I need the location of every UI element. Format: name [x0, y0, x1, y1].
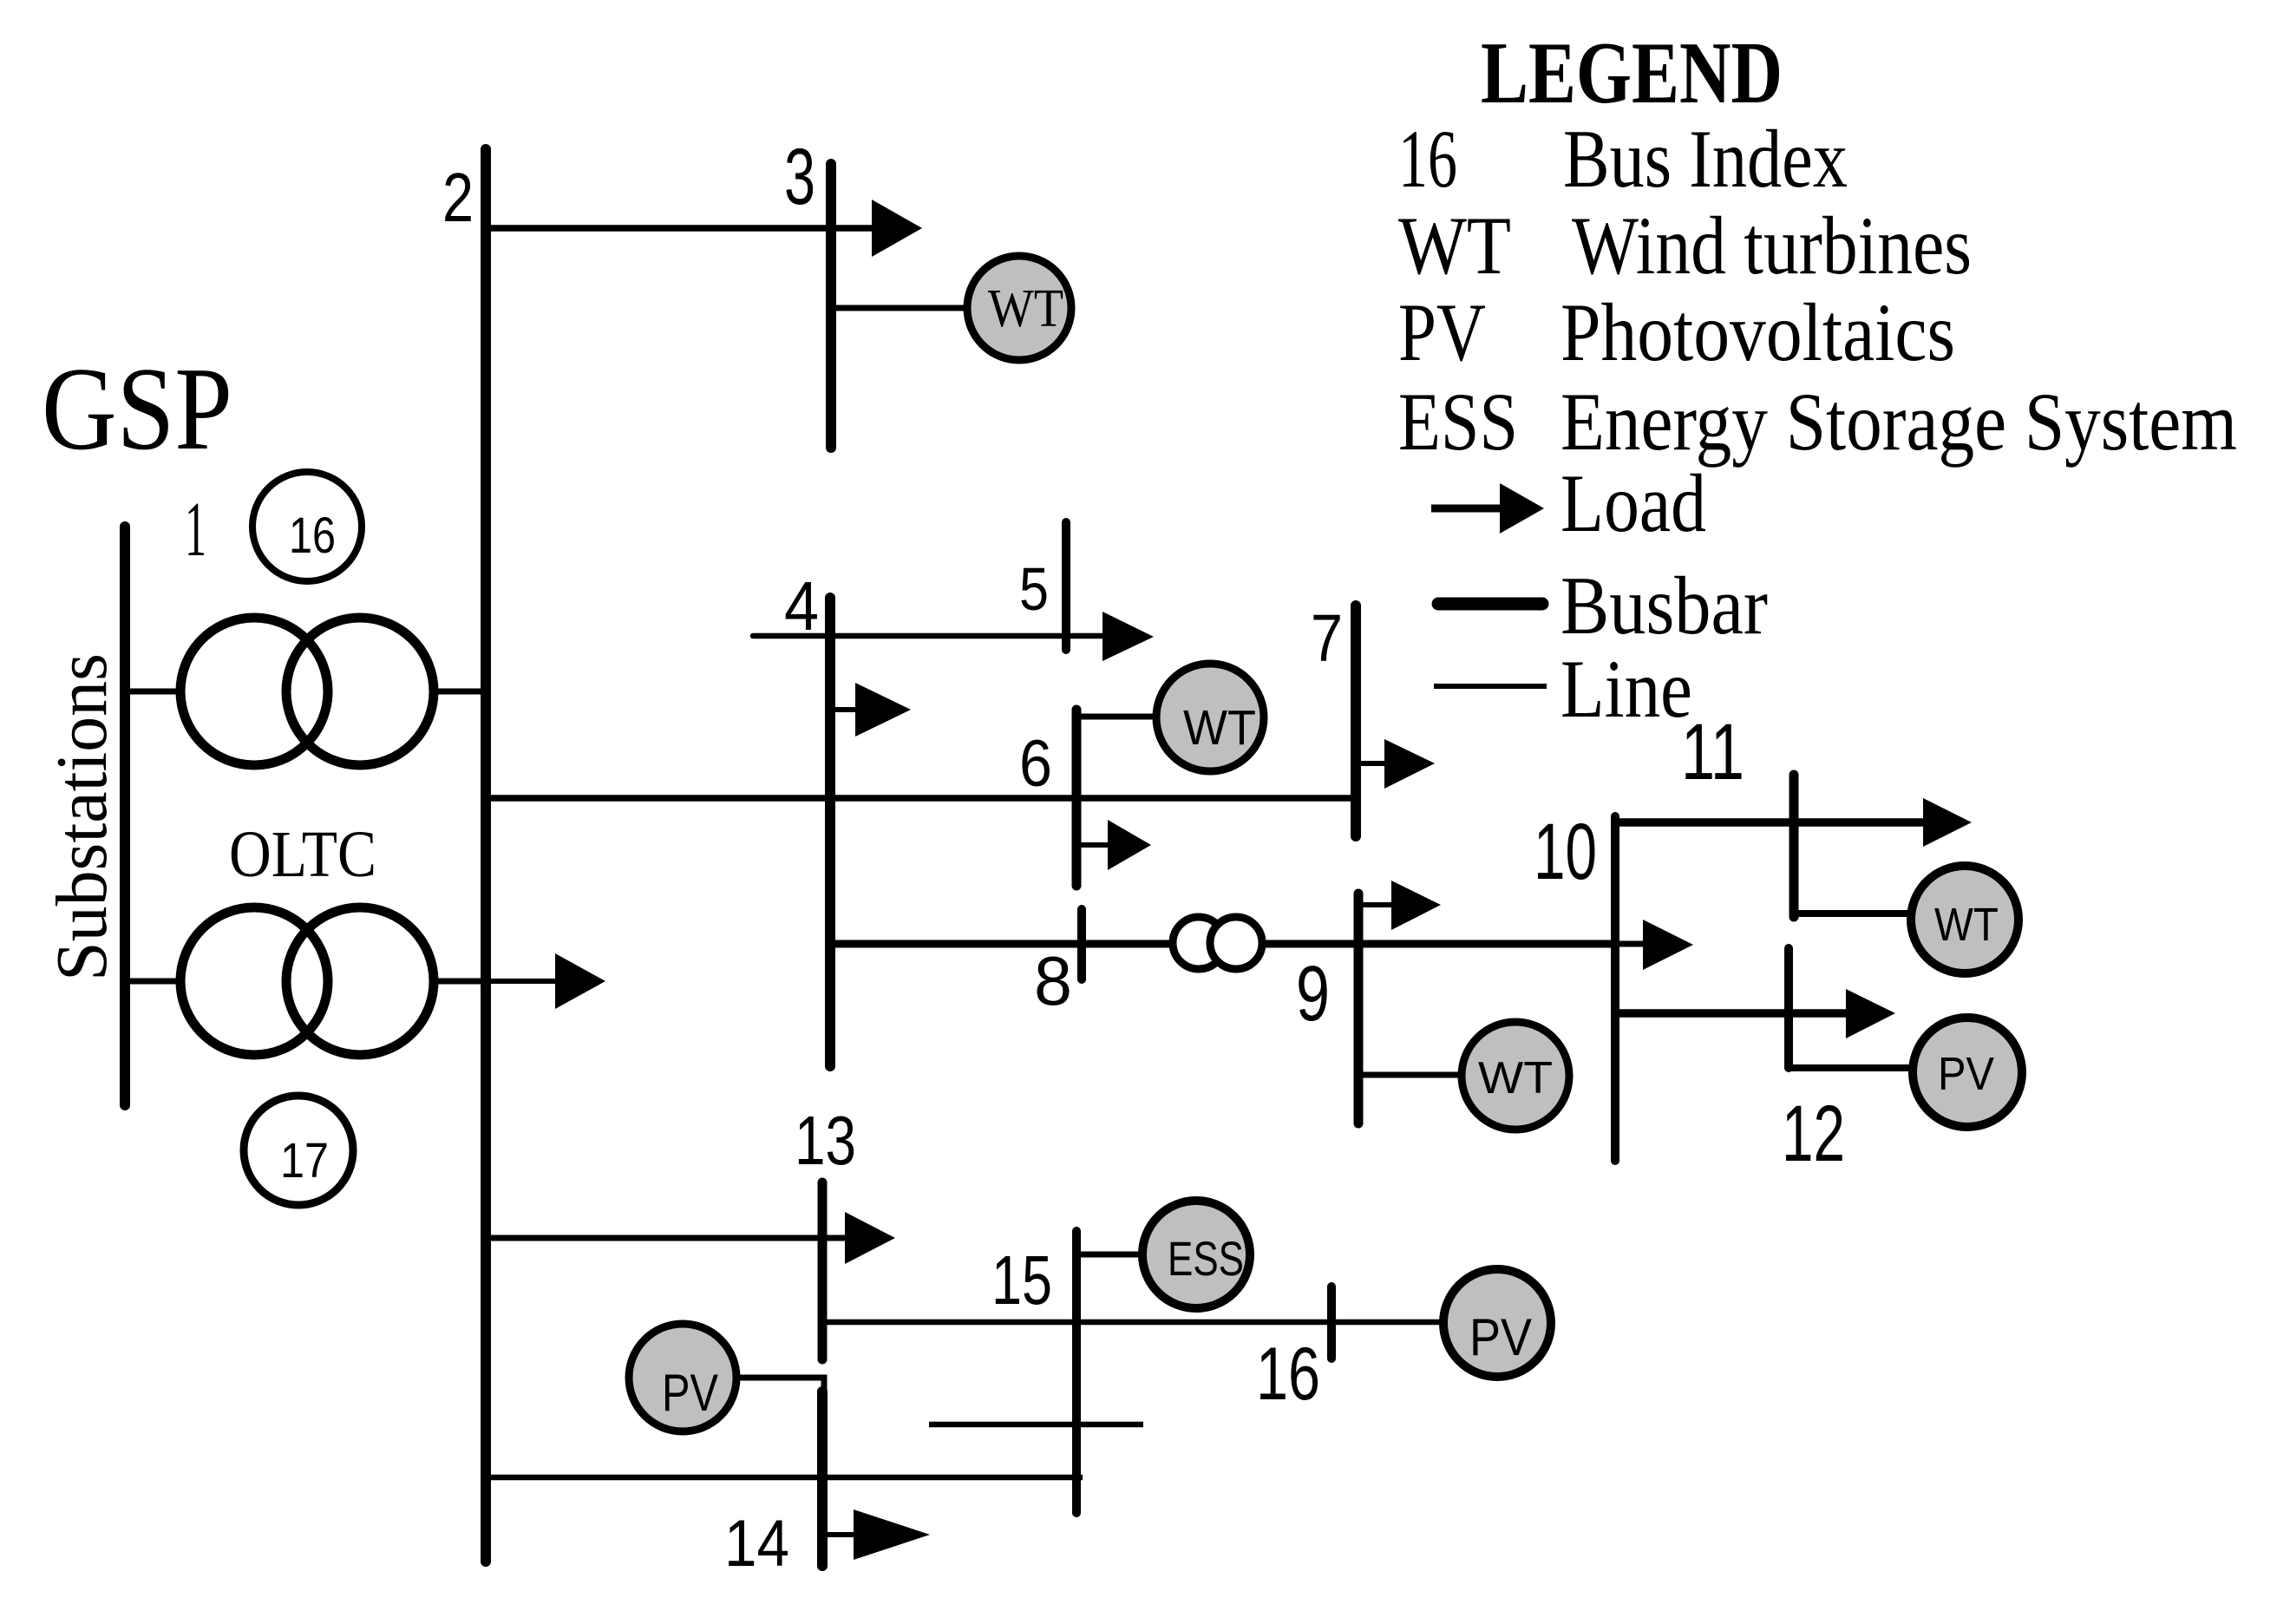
svg-text:OLTC: OLTC [229, 818, 376, 891]
bus 6 busbar [1072, 710, 1082, 886]
svg-text:14: 14 [724, 1507, 789, 1581]
legend busbar sample [1438, 598, 1542, 611]
svg-text:1: 1 [185, 487, 206, 573]
svg-text:13: 13 [795, 1102, 856, 1179]
load arrow bus 2 [486, 979, 557, 984]
svg-text:PV: PV [1469, 1308, 1532, 1366]
load arrow bus 3 [831, 225, 874, 232]
svg-text:ESS: ESS [1168, 1231, 1244, 1286]
svg-text:PV: PV [662, 1364, 718, 1422]
wire line 4-8-9-10 [830, 940, 1615, 948]
bus 5 busbar [1062, 522, 1070, 650]
svg-text:8: 8 [1034, 942, 1072, 1019]
svg-text:16: 16 [289, 507, 336, 564]
svg-text:6: 6 [1019, 727, 1052, 801]
wire transformer T1 to bus2 [432, 689, 486, 695]
wire bus12 to PV [1789, 1064, 1915, 1071]
svg-text:16: 16 [1256, 1333, 1320, 1416]
load arrow bus 14 [822, 1532, 857, 1537]
svg-text:Wind turbines: Wind turbines [1572, 200, 1972, 291]
wire bus1 to transformer T1 [128, 689, 182, 695]
legend load arrow sample [1431, 505, 1502, 513]
svg-text:WT: WT [1934, 899, 1999, 951]
svg-text:17: 17 [280, 1133, 329, 1189]
svg-text:5: 5 [1019, 555, 1049, 623]
wire line 2-7 [486, 795, 1356, 802]
energy storage ESS bus15 [1142, 1201, 1250, 1308]
load arrow bus 13 [845, 1212, 895, 1264]
wind turbine WT bus3 [967, 256, 1071, 360]
svg-text:15: 15 [991, 1241, 1052, 1319]
svg-text:12: 12 [1782, 1090, 1845, 1178]
load arrow bus 12 [1846, 989, 1895, 1038]
svg-text:9: 9 [1296, 951, 1330, 1038]
bus 1 busbar [120, 527, 130, 1105]
transformer T1 (OLTC upper) [180, 618, 434, 765]
wire line 4-5 [753, 633, 1104, 639]
svg-text:2: 2 [442, 159, 474, 236]
wire PV to bus14 [739, 1378, 824, 1393]
svg-text:Photovoltaics: Photovoltaics [1560, 286, 1955, 378]
bus 14 busbar [817, 1392, 828, 1566]
svg-text:Substations: Substations [42, 653, 122, 981]
svg-text:Busbar: Busbar [1560, 560, 1768, 652]
load arrow bus 5 [1102, 612, 1154, 661]
load arrow bus 7 [1356, 761, 1388, 766]
svg-text:LEGEND: LEGEND [1481, 24, 1783, 122]
wire line 2-3 [486, 225, 831, 232]
svg-text:ESS: ESS [1398, 376, 1518, 468]
bus 15 busbar [1072, 1231, 1081, 1513]
wire line 2-14-15 [486, 1475, 1083, 1481]
load arrow bus 11 [1923, 798, 1972, 847]
svg-text:16: 16 [1398, 113, 1457, 205]
wire line 10-12 [1615, 1009, 1848, 1018]
legend line sample [1434, 684, 1547, 689]
wind turbine WT bus9 [1462, 1022, 1569, 1130]
wire bus15 to ESS [1076, 1252, 1144, 1258]
svg-text:Line: Line [1560, 643, 1692, 735]
wire bus11 to WT [1794, 910, 1913, 917]
wind turbine WT bus6 [1156, 664, 1264, 771]
bus 7 busbar [1351, 606, 1361, 836]
bus index circle 17 [244, 1096, 353, 1205]
bus 2 busbar [481, 149, 491, 1562]
bus 16 busbar tick [1327, 1287, 1336, 1359]
svg-text:PV: PV [1398, 286, 1486, 378]
svg-text:10: 10 [1534, 808, 1597, 896]
wire line 10-11 [1615, 818, 1924, 827]
svg-text:WT: WT [1398, 200, 1511, 291]
transformer T2 (OLTC lower) [180, 907, 434, 1055]
svg-text:GSP: GSP [42, 343, 232, 475]
wind turbine WT bus11 [1911, 866, 2018, 973]
switch tick across bus 15 [929, 1422, 1143, 1428]
bus index circle 16 [252, 472, 362, 581]
wire bus1 to transformer T2 [128, 979, 182, 985]
wire bus6 to WT [1076, 714, 1157, 720]
bus 13 busbar [818, 1182, 828, 1359]
bus 12 busbar [1784, 948, 1793, 1068]
svg-text:WT: WT [1183, 700, 1256, 756]
wire bus3 to WT [831, 305, 967, 311]
photovoltaic PV bus12 [1913, 1018, 2022, 1127]
wire transformer T2 to bus2 [432, 979, 486, 985]
bus 4 busbar [825, 598, 835, 1066]
svg-text:Load: Load [1560, 457, 1706, 549]
svg-text:4: 4 [784, 567, 819, 645]
photovoltaic PV bus14 [629, 1324, 736, 1431]
load arrow bus 6 [1076, 842, 1111, 848]
photovoltaic PV bus16 [1443, 1269, 1551, 1377]
svg-text:7: 7 [1311, 601, 1343, 676]
load arrow bus 4 [830, 707, 860, 712]
bus 3 busbar [826, 164, 836, 448]
svg-text:WT: WT [988, 279, 1063, 338]
svg-text:3: 3 [784, 133, 815, 221]
svg-text:Energy Storage System: Energy Storage System [1560, 376, 2237, 468]
bus 11 busbar [1789, 775, 1799, 917]
svg-text:WT: WT [1478, 1053, 1553, 1103]
bus 9 busbar [1354, 894, 1364, 1123]
bus 8 busbar tick [1077, 909, 1086, 979]
wire line 2-13 [486, 1235, 848, 1241]
svg-text:Bus Index: Bus Index [1563, 113, 1848, 205]
svg-text:PV: PV [1938, 1048, 1994, 1100]
bus 10 busbar [1611, 816, 1619, 1161]
wire bus9 to WT [1358, 1072, 1466, 1078]
load arrow bus 10 [1615, 941, 1646, 947]
load arrow bus 9 [1358, 902, 1395, 907]
transformer T3 (between bus 8 and 9) [1173, 917, 1262, 969]
wire line 13-15-16 [822, 1319, 1441, 1326]
